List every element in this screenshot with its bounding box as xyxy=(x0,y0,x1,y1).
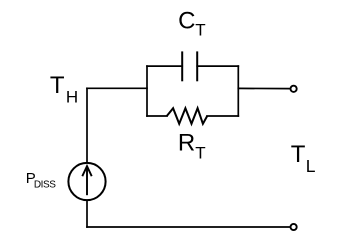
resistor R_T zigzag xyxy=(167,108,207,124)
svg-text:L: L xyxy=(306,156,316,176)
wire from parallel network right to upper terminal xyxy=(238,87,289,89)
terminal upper (open circle) xyxy=(291,86,297,92)
wire from node T_H to parallel network xyxy=(87,87,147,89)
wire left vertical edge of parallel loop xyxy=(146,66,148,116)
svg-text:T: T xyxy=(50,72,65,99)
svg-text:C: C xyxy=(178,8,195,35)
wire from current source bottom down xyxy=(86,201,88,227)
wire right vertical edge of parallel loop xyxy=(237,66,239,116)
wire bottom horizontal to lower terminal xyxy=(87,226,290,228)
current source P_DISS circle xyxy=(68,163,105,200)
svg-text:T: T xyxy=(195,21,205,40)
wire top rail left segment to capacitor xyxy=(147,65,182,67)
svg-text:H: H xyxy=(66,87,78,106)
svg-text:T: T xyxy=(291,141,306,168)
wire bottom rail right segment from resistor xyxy=(207,115,238,117)
svg-text:R: R xyxy=(178,130,195,157)
wire from node T_H down to current source xyxy=(86,88,88,162)
wire top rail right segment from capacitor xyxy=(197,65,238,67)
wire bottom rail left segment to resistor xyxy=(147,115,167,117)
terminal lower (open circle) xyxy=(291,224,297,230)
current source arrow xyxy=(82,166,91,195)
svg-text:DISS: DISS xyxy=(34,180,56,191)
capacitor C_T plates xyxy=(182,51,197,81)
svg-text:T: T xyxy=(195,144,205,163)
